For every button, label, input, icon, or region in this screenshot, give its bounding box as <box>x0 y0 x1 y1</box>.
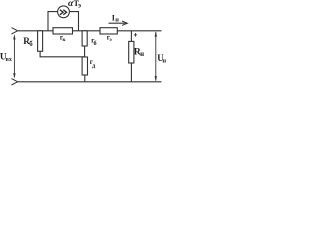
svg-text:э: э <box>109 37 112 43</box>
svg-text:н: н <box>140 51 144 58</box>
svg-text:к: к <box>62 37 66 43</box>
svg-text:н: н <box>162 57 166 64</box>
svg-text:н: н <box>115 17 119 24</box>
svg-text:б: б <box>94 40 97 47</box>
svg-text:б: б <box>29 41 33 48</box>
svg-text:вх: вх <box>6 57 12 63</box>
svg-text:д: д <box>92 62 96 69</box>
svg-text:э: э <box>78 2 81 10</box>
